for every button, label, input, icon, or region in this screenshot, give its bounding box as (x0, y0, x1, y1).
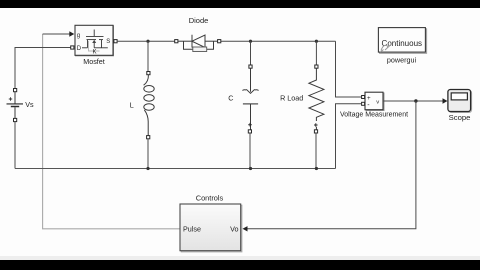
node: junction at R Load bottom (315, 167, 318, 170)
node: junction at L bottom (146, 167, 149, 170)
wire: R Load to bottom rail (315, 133, 317, 169)
svg-text:K: K (93, 50, 97, 56)
svg-text:Voltage Measurement: Voltage Measurement (340, 112, 408, 119)
wire: bottom rail (15, 168, 336, 170)
svg-text:Pulse: Pulse (183, 224, 201, 233)
svg-text:L: L (130, 100, 134, 109)
inductor L (130, 72, 155, 139)
wire: inductor L to bottom rail (147, 139, 149, 169)
resistor R Load (280, 65, 324, 133)
wire: capacitor C to bottom rail (249, 133, 251, 169)
wire: gate pulse from Controls Pulse to Mosfet g (gray) (43, 31, 180, 229)
svg-text:Scope: Scope (449, 113, 471, 122)
scope block (448, 90, 472, 123)
wire: top node to Voltage Measurement plus (336, 41, 362, 97)
capacitor C (228, 65, 258, 133)
svg-text:Diode: Diode (189, 16, 209, 25)
mosfet Q1 (Mosfet block) (75, 25, 117, 66)
voltage source Vs (7, 89, 34, 122)
node: junction at L top (146, 40, 149, 43)
wire: rail to capacitor C (250, 41, 252, 65)
wire: Vs plus to Mosfet D (15, 46, 74, 90)
node: junction at R Load top (315, 40, 318, 43)
svg-text:v: v (376, 99, 379, 105)
powergui block (378, 28, 426, 65)
wire: VM output to Scope (383, 98, 448, 103)
node: junction at C top (249, 40, 252, 43)
svg-text:Mosfet: Mosfet (83, 57, 105, 66)
wire: top rail from Mosfet S to VM branch corner (117, 40, 336, 42)
wire: feedback from scope node to Controls Vo (243, 101, 416, 232)
svg-text:D: D (77, 46, 82, 52)
svg-text:C: C (228, 94, 233, 103)
svg-text:R Load: R Load (280, 93, 303, 102)
diode D1 (Diode block with snubber) (175, 16, 221, 52)
subsystem Controls (180, 194, 242, 252)
node: junction on scope wire (414, 99, 417, 102)
wire: rail to inductor L (147, 41, 149, 72)
voltage measurement block U1 (340, 92, 408, 118)
svg-text:S: S (106, 39, 110, 45)
wire: bottom rail to Voltage Measurement minus (336, 104, 362, 169)
svg-text:Controls: Controls (196, 194, 224, 203)
svg-text:Vs: Vs (25, 100, 34, 109)
svg-text:Vo: Vo (230, 224, 238, 233)
svg-text:g: g (77, 33, 80, 39)
wire: Vs minus to bottom rail (14, 122, 16, 169)
wire: rail to R Load (315, 41, 317, 65)
svg-text:powergui: powergui (387, 56, 417, 65)
node: junction at C bottom (249, 167, 252, 170)
